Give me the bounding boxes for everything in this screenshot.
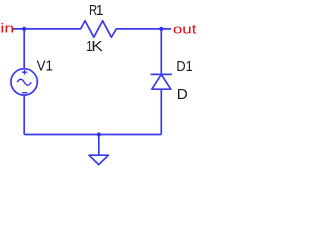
svg-text:D1: D1 <box>176 57 192 74</box>
svg-text:out: out <box>173 22 197 37</box>
svg-text:in: in <box>0 22 14 36</box>
svg-text:V1: V1 <box>37 58 53 75</box>
svg-text:K: K <box>91 38 103 55</box>
svg-text:1: 1 <box>96 3 104 20</box>
svg-text:D: D <box>177 86 188 103</box>
